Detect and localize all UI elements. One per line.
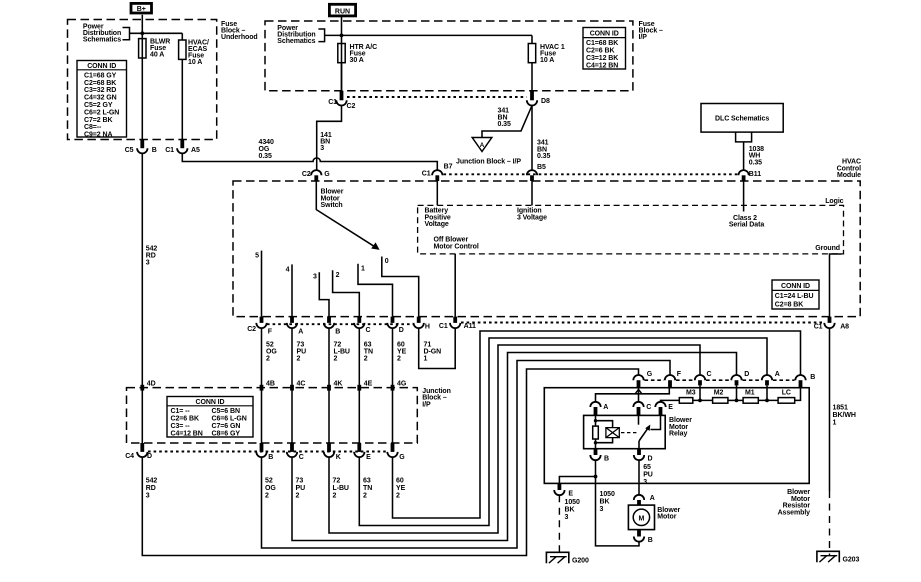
svg-text:A: A	[603, 404, 608, 411]
svg-text:4D: 4D	[147, 381, 156, 388]
logic dashed box	[418, 205, 844, 254]
connector C2 pin H	[414, 317, 430, 331]
label 542 RD 3 (lower)	[146, 478, 158, 500]
svg-text:3: 3	[600, 506, 604, 513]
svg-text:B11: B11	[749, 171, 761, 178]
svg-text:2: 2	[336, 272, 340, 279]
svg-text:A: A	[775, 371, 780, 378]
assembly pin E (bottom)	[554, 483, 573, 497]
wire 63 TN (C) down	[358, 328, 360, 443]
wire branch to HVAC 1 fuse	[325, 35, 532, 43]
svg-text:OG: OG	[266, 348, 277, 355]
switch position 3 contact	[319, 272, 329, 316]
svg-text:73: 73	[297, 341, 305, 348]
label 65 PU 3	[643, 464, 653, 486]
wire 71 D-GN loop H to A11	[419, 328, 456, 368]
svg-text:C6=6 L-GN: C6=6 L-GN	[212, 416, 247, 423]
label Fuse Block - Underhood	[221, 21, 258, 41]
svg-text:C5=6 BN: C5=6 BN	[212, 408, 240, 415]
label 63 TN 2	[364, 341, 373, 362]
svg-text:C4=12 BN: C4=12 BN	[171, 431, 203, 438]
wire pin G down to relay C	[638, 388, 640, 402]
junction block I/P dashed box (lower)	[127, 388, 418, 443]
label 341 BN 0.35 (right)	[537, 140, 550, 160]
svg-text:Voltage: Voltage	[425, 221, 449, 228]
svg-text:C1= --: C1= --	[171, 408, 191, 415]
svg-text:D8: D8	[541, 98, 550, 105]
blower motor pin B	[634, 530, 653, 544]
svg-text:TN: TN	[363, 485, 372, 492]
svg-text:A: A	[650, 495, 655, 502]
CONN ID table underhood	[77, 61, 127, 139]
svg-text:Relay: Relay	[669, 431, 687, 438]
svg-text:30 A: 30 A	[350, 57, 364, 64]
connector C1 pin A8	[814, 317, 849, 331]
svg-text:C: C	[707, 371, 712, 378]
junction dots on resistor chain	[698, 399, 769, 403]
svg-text:2: 2	[334, 355, 338, 362]
connector C2 pin A	[287, 317, 303, 336]
svg-text:0.35: 0.35	[259, 153, 272, 160]
svg-text:1: 1	[833, 420, 837, 427]
junction dot ground splice	[594, 475, 598, 479]
svg-text:1050: 1050	[600, 491, 615, 498]
wire 542 RD run to resistor pin G	[142, 369, 638, 556]
svg-text:B: B	[268, 454, 273, 461]
wire 341 BN diagonal to junction block triangle	[482, 106, 532, 138]
label 1050 BK 3 (motor)	[600, 491, 615, 513]
svg-text:CONN ID: CONN ID	[196, 399, 225, 406]
svg-text:Schematics: Schematics	[83, 37, 121, 44]
wire pin C down to resistor chain	[699, 385, 701, 400]
svg-text:C2: C2	[347, 103, 356, 110]
wire HTR fuse down	[341, 63, 343, 91]
ground G203	[817, 551, 860, 563]
DLC Schematics box	[701, 104, 783, 133]
fuse HVAC 1 10A	[528, 44, 565, 64]
wire B5 to logic (ignition 3)	[531, 181, 533, 205]
label Ignition 3 Voltage	[517, 208, 547, 222]
svg-text:60: 60	[396, 478, 404, 485]
svg-text:C2: C2	[302, 171, 311, 178]
svg-text:C: C	[299, 454, 304, 461]
svg-text:C8=--: C8=--	[84, 124, 102, 131]
wire off blower motor control to A11	[454, 254, 456, 317]
wire HVAC1 fuse down	[531, 63, 533, 91]
svg-text:4C: 4C	[297, 381, 306, 388]
label 1851 BK/WH 1	[833, 405, 856, 427]
svg-text:B: B	[335, 328, 340, 335]
svg-text:BK: BK	[565, 507, 575, 514]
svg-text:C6=2 L-GN: C6=2 L-GN	[84, 109, 119, 116]
wire 73 PU run to resistor pin D	[292, 353, 737, 541]
resistor assembly pin G	[633, 371, 652, 388]
svg-text:PU: PU	[643, 472, 653, 479]
svg-text:C1=24 L-BU: C1=24 L-BU	[775, 293, 814, 300]
svg-text:1: 1	[361, 265, 365, 272]
label Class 2 Serial Data	[729, 215, 764, 229]
svg-text:DLC Schematics: DLC Schematics	[715, 116, 769, 123]
svg-text:Switch: Switch	[321, 202, 343, 209]
chain segment M2-M1	[728, 399, 743, 401]
dotted connector line C2-D8	[347, 96, 527, 98]
svg-text:542: 542	[146, 246, 158, 253]
fuse BLWR 40A	[139, 38, 171, 58]
chain segment M3-M2	[693, 399, 713, 401]
wire 60 YE run to resistor pin B	[393, 331, 801, 518]
connector C2 pin D	[387, 317, 403, 334]
svg-text:C2=68 BK: C2=68 BK	[84, 80, 116, 87]
wire relay A to pin F with crossover arrow	[596, 388, 670, 402]
label 52 OG 2	[266, 341, 277, 362]
svg-text:63: 63	[364, 341, 372, 348]
label HVAC Control Module	[837, 159, 862, 179]
switch position 0 contact	[382, 257, 419, 317]
connector C1 pin C2 (HTR A/C out)	[328, 91, 355, 110]
wire 1038 WH down to B11	[743, 142, 745, 170]
svg-text:40 A: 40 A	[150, 51, 164, 58]
RUN symbol	[329, 4, 355, 16]
HVAC control module dashed box	[233, 181, 860, 317]
svg-text:60: 60	[397, 341, 405, 348]
svg-text:4K: 4K	[334, 381, 343, 388]
label 60 YE 2	[397, 341, 407, 362]
svg-text:RUN: RUN	[335, 8, 350, 15]
wire 72 L-BU run to resistor pin C	[329, 345, 700, 533]
svg-text:LC: LC	[782, 390, 791, 397]
relay coil suppressor branch	[596, 421, 613, 443]
svg-text:E: E	[668, 404, 673, 411]
svg-text:2: 2	[296, 493, 300, 500]
wire motor ground down and right	[596, 477, 640, 546]
svg-text:YE: YE	[397, 348, 407, 355]
switch position 2 contact	[333, 270, 360, 316]
blower motor pin A	[634, 495, 655, 505]
svg-text:3: 3	[313, 274, 317, 281]
wire 60 YE (D) down	[392, 328, 394, 443]
resistor assembly pin F	[665, 371, 682, 388]
svg-text:C7=2 BK: C7=2 BK	[84, 117, 112, 124]
svg-text:G203: G203	[843, 556, 860, 563]
junction block top pin stubs	[142, 385, 392, 391]
svg-text:CONN ID: CONN ID	[590, 30, 619, 37]
connector pin B11 (module top)	[738, 170, 761, 181]
wire RUN feed down	[341, 16, 343, 91]
svg-text:I/P: I/P	[639, 34, 648, 41]
wire HVAC/ECAS fuse down	[181, 59, 183, 139]
svg-text:1050: 1050	[565, 499, 580, 506]
label 72 L-BU 2	[334, 341, 350, 362]
label 63 TN 2 (lower)	[363, 478, 372, 500]
connector C5 pin B	[125, 140, 157, 155]
svg-text:2: 2	[363, 493, 367, 500]
svg-text:2: 2	[333, 493, 337, 500]
connector pin D8 (HVAC1 out)	[527, 91, 550, 106]
svg-text:CONN ID: CONN ID	[781, 283, 810, 290]
svg-text:2: 2	[265, 493, 269, 500]
resistor assembly pin C	[695, 371, 712, 386]
svg-text:C4=32 GN: C4=32 GN	[84, 95, 117, 102]
label Blower Motor Relay	[669, 417, 692, 437]
svg-text:BK: BK	[600, 499, 610, 506]
switch position 1 contact	[358, 264, 393, 317]
junction block I/P triangle A	[472, 138, 492, 152]
svg-text:K: K	[336, 454, 341, 461]
svg-text:OG: OG	[265, 485, 276, 492]
svg-text:C2=6 BK: C2=6 BK	[586, 47, 614, 54]
svg-text:C1=68 BK: C1=68 BK	[586, 40, 618, 47]
wire 52 OG (F) down	[261, 328, 263, 443]
connector C2 pin B	[324, 317, 340, 336]
svg-text:D: D	[744, 371, 749, 378]
wire 341 BN from D8 to B5	[531, 106, 533, 170]
DLC continuation bracket	[736, 132, 752, 142]
svg-text:3: 3	[146, 260, 150, 267]
wire 72 L-BU (B) down	[328, 328, 330, 443]
switch position 5 contact	[261, 251, 263, 317]
connector pin E (junction block bottom)	[354, 443, 371, 461]
bracket to power distribution schematics	[123, 28, 130, 40]
svg-text:4G: 4G	[397, 381, 407, 388]
connector pin B5 (module top)	[527, 164, 546, 181]
svg-text:M3: M3	[686, 390, 696, 397]
wire relay D inside box	[638, 441, 640, 449]
svg-text:3 Voltage: 3 Voltage	[517, 214, 547, 221]
label 73 PU 2 (lower)	[296, 478, 306, 500]
svg-text:C3= --: C3= --	[171, 423, 191, 430]
svg-text:A: A	[480, 142, 485, 149]
svg-text:D: D	[399, 327, 404, 334]
connector pin B (junction block bottom)	[256, 443, 273, 461]
label 60 YE 2 (lower)	[396, 478, 406, 500]
svg-text:2: 2	[364, 355, 368, 362]
wire 4340 OG from A5 to B7 with hop	[182, 153, 437, 169]
svg-text:72: 72	[333, 478, 341, 485]
ground G200	[546, 552, 589, 564]
svg-text:4: 4	[286, 266, 290, 273]
resistor LC	[778, 390, 795, 404]
resistor assembly pin A	[762, 371, 780, 386]
svg-text:4E: 4E	[364, 381, 373, 388]
label 4340 OG 0.35	[259, 139, 274, 160]
svg-text:2: 2	[297, 355, 301, 362]
svg-text:B5: B5	[537, 164, 546, 171]
dotted connector line C1 A11-A8	[461, 322, 824, 324]
svg-text:C1: C1	[165, 147, 174, 154]
connector C4 pin D (junction block bottom)	[125, 443, 152, 460]
svg-text:Assembly: Assembly	[778, 509, 811, 516]
dotted connector line C4 D-G	[148, 451, 387, 453]
label Power Distribution Schematics (I/P)	[277, 25, 315, 45]
label 1050 BK 3 (pin E)	[565, 499, 580, 521]
label 72 L-BU 2 (lower)	[333, 478, 349, 500]
svg-text:D-GN: D-GN	[424, 348, 442, 355]
svg-text:RD: RD	[146, 485, 156, 492]
junction block top pin labels	[147, 381, 407, 388]
label 1038 WH 0.35	[749, 146, 764, 166]
connector pin K (junction block bottom)	[324, 443, 341, 461]
label Battery Positive Voltage	[425, 208, 451, 228]
svg-text:5: 5	[255, 253, 259, 260]
svg-text:TN: TN	[364, 348, 373, 355]
svg-text:B: B	[810, 374, 815, 381]
svg-text:C4=12 BN: C4=12 BN	[586, 62, 618, 69]
relay pin E	[655, 402, 673, 416]
svg-text:Underhood: Underhood	[221, 34, 258, 41]
svg-text:63: 63	[363, 478, 371, 485]
svg-text:BK/WH: BK/WH	[833, 412, 856, 419]
svg-text:M1: M1	[745, 390, 755, 397]
relay pin B	[590, 449, 609, 463]
wire 73 PU (A) down	[291, 328, 293, 443]
wire branch to fuses	[130, 33, 183, 40]
relay actuator dashed link	[621, 432, 637, 434]
svg-text:C2: C2	[247, 326, 256, 333]
svg-text:4B: 4B	[266, 381, 275, 388]
svg-text:A5: A5	[191, 147, 200, 154]
svg-text:3: 3	[320, 145, 324, 152]
CONN ID table HVAC module	[772, 280, 819, 309]
relay coil branch	[595, 415, 597, 448]
svg-text:M: M	[639, 515, 645, 522]
chain segment M1-LC	[758, 399, 778, 401]
svg-text:F: F	[677, 371, 682, 378]
svg-text:3: 3	[643, 479, 647, 486]
switch position 4 contact	[291, 264, 293, 316]
svg-text:Schematics: Schematics	[277, 38, 315, 45]
svg-text:52: 52	[265, 478, 273, 485]
fuse block I/P dashed box	[265, 21, 633, 91]
resistor M1	[743, 390, 758, 404]
svg-text:G: G	[399, 454, 405, 461]
svg-text:2: 2	[396, 493, 400, 500]
svg-text:G: G	[647, 371, 653, 378]
svg-text:B: B	[604, 456, 609, 463]
svg-text:C3=12 BK: C3=12 BK	[586, 55, 618, 62]
wire B11 class 2 serial data	[743, 181, 745, 212]
svg-text:OG: OG	[259, 146, 270, 153]
label 141 BN 3	[320, 132, 332, 152]
resistor M2	[713, 390, 728, 404]
label Blower Motor Switch	[321, 189, 344, 209]
svg-text:2: 2	[397, 355, 401, 362]
svg-text:2: 2	[266, 355, 270, 362]
svg-text:E: E	[568, 490, 573, 497]
svg-text:C8=6 GY: C8=6 GY	[212, 431, 241, 438]
wire ground to A8	[830, 254, 842, 317]
wire relay E up to chain	[661, 400, 680, 401]
relay switch arm with arrowhead	[639, 425, 650, 442]
CONN ID table junction block	[167, 397, 253, 438]
label Off Blower Motor Control	[434, 237, 479, 251]
svg-text:Serial Data: Serial Data	[729, 222, 764, 229]
svg-text:C3=32 RD: C3=32 RD	[84, 87, 116, 94]
svg-text:A8: A8	[840, 324, 849, 331]
resistor M3	[679, 390, 695, 404]
label Blower Motor Resistor Assembly	[778, 489, 811, 516]
label Fuse Block - I/P	[639, 21, 664, 41]
label 52 OG 2 (lower)	[265, 478, 276, 500]
svg-text:G200: G200	[572, 557, 589, 564]
junction dot	[340, 34, 344, 38]
svg-text:A: A	[298, 328, 303, 335]
wire relay B to ground junction	[595, 460, 597, 476]
svg-text:10 A: 10 A	[540, 57, 554, 64]
svg-text:Ground: Ground	[815, 245, 840, 252]
relay pin C	[633, 402, 651, 416]
svg-text:B7: B7	[444, 164, 453, 171]
wire 65 PU relay D to motor A	[638, 460, 640, 494]
resistor assembly pin B	[795, 374, 815, 388]
relay pin D	[634, 449, 653, 463]
dashed wire 1050 BK to G200	[558, 495, 560, 556]
B+ power symbol	[131, 3, 152, 13]
svg-text:C1: C1	[422, 170, 431, 177]
wire 63 TN run to resistor pin A	[359, 338, 767, 526]
svg-text:B: B	[152, 147, 157, 154]
crossover arrow at G wire	[635, 389, 643, 394]
connector C2 pin C	[354, 317, 370, 334]
blower motor relay box	[584, 415, 666, 448]
relay coil resistor	[593, 426, 599, 439]
blower motor resistor assembly box	[544, 388, 809, 484]
wire B7 to logic (battery positive)	[436, 181, 438, 205]
relay suppressor box with X	[606, 428, 619, 438]
svg-text:C4: C4	[125, 453, 134, 460]
svg-text:0.35: 0.35	[537, 153, 550, 160]
wire 542 RD left rail down to junction block	[141, 153, 143, 443]
svg-text:0: 0	[385, 258, 389, 265]
svg-text:RD: RD	[146, 253, 156, 260]
svg-text:65: 65	[643, 464, 651, 471]
svg-text:C1: C1	[814, 324, 823, 331]
svg-text:Motor: Motor	[657, 514, 676, 521]
svg-text:C5=2 GY: C5=2 GY	[84, 102, 113, 109]
svg-text:71: 71	[424, 341, 432, 348]
svg-text:0.35: 0.35	[749, 159, 762, 166]
svg-text:3: 3	[146, 493, 150, 500]
svg-text:C9=2 NA: C9=2 NA	[84, 132, 112, 139]
svg-text:1: 1	[424, 355, 428, 362]
bracket to power distribution schematics (I/P)	[318, 29, 324, 42]
wire 52 OG run to resistor pin F	[262, 361, 671, 549]
dotted connector line B7-B5-B11	[444, 173, 738, 175]
wire B+ feed down	[141, 15, 143, 140]
svg-text:C1=68 GY: C1=68 GY	[84, 72, 117, 79]
connector C1 pin B7 (module top)	[422, 164, 453, 181]
resistor assembly pin D	[731, 371, 749, 386]
svg-text:L-BU: L-BU	[333, 485, 349, 492]
svg-text:PU: PU	[296, 485, 306, 492]
connector C1 pin A5	[165, 140, 200, 155]
relay fixed contact from C	[638, 415, 640, 424]
svg-text:I/P: I/P	[422, 401, 431, 408]
label 71 D-GN 1	[424, 341, 442, 362]
svg-text:D: D	[648, 456, 653, 463]
svg-text:C5: C5	[125, 147, 134, 154]
relay contact from E	[651, 415, 661, 429]
svg-text:542: 542	[146, 478, 158, 485]
svg-text:4340: 4340	[259, 139, 274, 146]
svg-text:YE: YE	[396, 485, 406, 492]
wire pin A down to resistor chain	[766, 385, 768, 400]
connector C2 pin F (module bottom)	[247, 317, 272, 336]
relay pin A	[590, 402, 608, 416]
chain segment LC to pin B	[795, 388, 801, 401]
svg-text:C2=6 BK: C2=6 BK	[171, 416, 199, 423]
svg-text:PU: PU	[297, 348, 307, 355]
blower motor M1	[628, 505, 680, 529]
